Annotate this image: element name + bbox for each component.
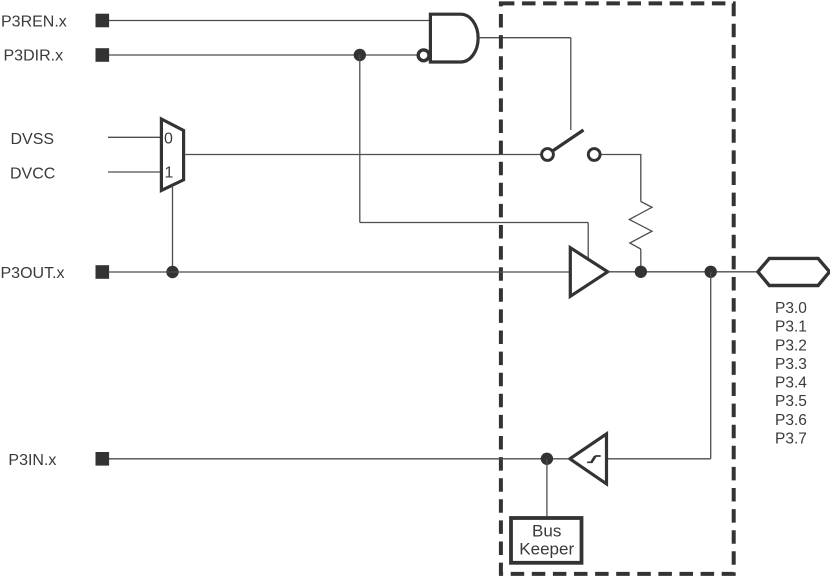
svg-text:P3.5: P3.5 <box>775 393 807 410</box>
svg-text:DVCC: DVCC <box>10 166 55 183</box>
wire P3REN to NAND input <box>109 20 430 22</box>
nand gate U1 input bubble <box>418 50 429 61</box>
switch S1 right contact circle <box>588 149 600 161</box>
svg-text:P3DIR.x: P3DIR.x <box>4 48 64 65</box>
bus keeper label <box>519 522 574 559</box>
wire pad branch down <box>710 272 712 459</box>
nand gate U1 body <box>430 14 478 62</box>
output buffer U3 triangle <box>570 248 607 297</box>
svg-text:P3.1: P3.1 <box>775 319 807 336</box>
pad name list P3.0-P3.7 <box>775 300 807 448</box>
wire mux select down to P3OUT line <box>172 186 174 272</box>
svg-text:P3REN.x: P3REN.x <box>1 14 67 31</box>
wire bus keeper tap down <box>546 459 548 517</box>
svg-text:P3OUT.x: P3OUT.x <box>1 265 65 282</box>
wire DVSS to mux input 0 <box>108 136 162 138</box>
junction dot resistor on output line <box>635 266 647 278</box>
wire P3DIR to inverter bubble <box>109 54 417 56</box>
svg-text:P3.4: P3.4 <box>775 375 807 392</box>
terminal square P3OUT.x <box>96 265 110 279</box>
svg-text:Bus: Bus <box>532 522 561 541</box>
junction dot bus keeper tap <box>541 453 553 465</box>
svg-text:1: 1 <box>165 165 174 182</box>
terminal square P3REN.x <box>96 14 110 28</box>
svg-text:DVSS: DVSS <box>11 131 55 148</box>
svg-text:P3.2: P3.2 <box>775 337 807 354</box>
svg-text:P3.7: P3.7 <box>775 431 807 448</box>
wire pad branch to schmitt input <box>607 458 711 460</box>
wire resistor bottom to output line <box>640 249 642 272</box>
pad hexagon <box>758 258 830 285</box>
svg-text:Keeper: Keeper <box>519 540 574 559</box>
dashed module boundary box <box>501 3 734 574</box>
bus keeper box <box>511 518 582 563</box>
wire nand output down to switch lever <box>570 38 572 130</box>
terminal square P3DIR.x <box>96 48 110 62</box>
wire P3DIR branch vertical <box>359 55 361 223</box>
switch S1 left contact circle <box>542 149 554 161</box>
svg-text:P3.0: P3.0 <box>775 300 807 317</box>
wire mux output to switch <box>185 154 541 156</box>
wire nand output <box>479 37 571 39</box>
mux U2 trapezoid <box>161 119 183 191</box>
svg-text:0: 0 <box>164 131 173 148</box>
wire buffer output to pad <box>608 271 758 273</box>
wire buffer enable vertical <box>587 223 589 260</box>
resistor R1 zigzag <box>629 202 652 250</box>
switch S1 lever <box>553 130 584 151</box>
junction dot pad branch <box>705 266 717 278</box>
wire schmitt output to P3IN <box>109 458 570 460</box>
wire DVCC to mux input 1 <box>108 171 162 173</box>
terminal square P3IN.x <box>96 452 110 466</box>
junction dot on P3DIR line <box>354 49 366 61</box>
svg-text:P3.6: P3.6 <box>775 412 807 429</box>
schmitt trigger U4 triangle <box>570 434 607 484</box>
junction dot mux select on P3OUT <box>166 266 178 278</box>
svg-text:P3.3: P3.3 <box>775 356 807 373</box>
wire P3OUT to buffer input <box>109 271 570 273</box>
svg-text:P3IN.x: P3IN.x <box>8 452 56 469</box>
wire P3DIR branch horizontal to buffer enable <box>360 222 588 224</box>
wire switch to resistor corner <box>602 155 641 202</box>
schmitt hysteresis symbol <box>587 456 601 462</box>
